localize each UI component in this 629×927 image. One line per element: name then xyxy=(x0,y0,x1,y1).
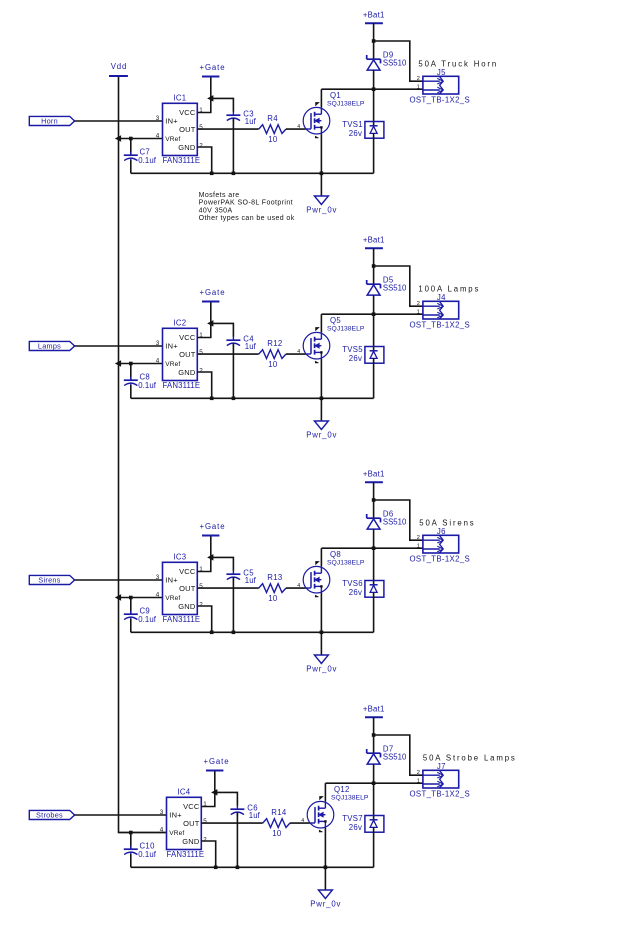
svg-text:SS510: SS510 xyxy=(383,283,407,292)
svg-text:1uf: 1uf xyxy=(245,342,257,351)
svg-text:Pwr_0v: Pwr_0v xyxy=(306,430,337,439)
svg-text:IC2: IC2 xyxy=(173,318,186,327)
svg-text:2: 2 xyxy=(199,367,203,374)
svg-text:+Bat1: +Bat1 xyxy=(363,235,385,244)
svg-text:26v: 26v xyxy=(349,354,362,363)
svg-text:IC3: IC3 xyxy=(173,552,186,561)
svg-text:OUT: OUT xyxy=(179,350,196,359)
svg-text:OST_TB-1X2_S: OST_TB-1X2_S xyxy=(410,555,471,564)
svg-text:Strobes: Strobes xyxy=(36,811,63,820)
svg-text:J5: J5 xyxy=(437,68,446,77)
svg-text:+Gate: +Gate xyxy=(204,757,230,766)
svg-text:FAN3111E: FAN3111E xyxy=(163,381,201,390)
svg-text:3: 3 xyxy=(160,809,164,816)
svg-text:0.1uf: 0.1uf xyxy=(138,850,157,859)
svg-text:GND: GND xyxy=(178,143,196,152)
svg-text:50A Truck Horn: 50A Truck Horn xyxy=(418,60,498,69)
svg-text:R12: R12 xyxy=(267,339,282,348)
svg-text:4: 4 xyxy=(297,583,300,589)
svg-text:40V 350A: 40V 350A xyxy=(199,207,233,214)
svg-text:4: 4 xyxy=(160,826,164,833)
svg-text:10: 10 xyxy=(272,829,282,838)
svg-text:+Gate: +Gate xyxy=(200,288,226,297)
svg-text:VCC: VCC xyxy=(179,567,196,576)
svg-text:3: 3 xyxy=(156,115,160,122)
svg-text:SQJ138ELP: SQJ138ELP xyxy=(327,101,365,108)
svg-text:100A Lamps: 100A Lamps xyxy=(418,285,480,294)
svg-text:PowerPAK SO-8L Footprint: PowerPAK SO-8L Footprint xyxy=(199,200,293,207)
svg-text:10: 10 xyxy=(268,594,278,603)
svg-text:0.1uf: 0.1uf xyxy=(138,156,157,165)
svg-text:IN+: IN+ xyxy=(165,342,178,351)
svg-text:GND: GND xyxy=(178,368,196,377)
svg-text:50A Strobe Lamps: 50A Strobe Lamps xyxy=(423,754,517,763)
svg-text:4: 4 xyxy=(301,818,304,824)
svg-text:OUT: OUT xyxy=(179,125,196,134)
svg-text:Pwr_0v: Pwr_0v xyxy=(306,664,337,673)
svg-text:1: 1 xyxy=(417,310,420,316)
svg-text:IN+: IN+ xyxy=(165,117,178,126)
svg-text:4: 4 xyxy=(156,591,160,598)
svg-text:Mosfets are: Mosfets are xyxy=(199,192,240,199)
svg-text:Other types can be used ok: Other types can be used ok xyxy=(199,215,295,222)
svg-text:+Gate: +Gate xyxy=(200,63,226,72)
svg-text:1: 1 xyxy=(417,85,420,91)
svg-text:4: 4 xyxy=(156,357,160,364)
svg-text:R13: R13 xyxy=(267,573,282,582)
svg-text:Q1: Q1 xyxy=(330,91,341,100)
svg-text:Q5: Q5 xyxy=(330,316,341,325)
svg-text:2: 2 xyxy=(417,76,420,82)
svg-text:Pwr_0v: Pwr_0v xyxy=(306,205,337,214)
svg-text:IC1: IC1 xyxy=(173,93,186,102)
svg-text:SQJ138ELP: SQJ138ELP xyxy=(327,560,365,567)
svg-text:2: 2 xyxy=(199,142,203,149)
svg-text:1: 1 xyxy=(417,779,420,785)
svg-text:OUT: OUT xyxy=(179,584,196,593)
svg-text:+Bat1: +Bat1 xyxy=(363,469,385,478)
svg-text:1: 1 xyxy=(417,544,420,550)
svg-text:FAN3111E: FAN3111E xyxy=(163,156,201,165)
svg-text:IN+: IN+ xyxy=(169,811,182,820)
svg-text:R4: R4 xyxy=(267,114,278,123)
svg-text:FAN3111E: FAN3111E xyxy=(163,615,201,624)
svg-text:IC4: IC4 xyxy=(177,787,190,796)
svg-text:0.1uf: 0.1uf xyxy=(138,381,157,390)
svg-text:J6: J6 xyxy=(437,527,446,536)
svg-text:FAN3111E: FAN3111E xyxy=(167,850,205,859)
svg-text:VCC: VCC xyxy=(179,108,196,117)
svg-text:SQJ138ELP: SQJ138ELP xyxy=(331,795,369,802)
svg-text:R14: R14 xyxy=(271,808,287,817)
svg-text:SS510: SS510 xyxy=(383,517,407,526)
svg-text:SS510: SS510 xyxy=(383,752,407,761)
svg-text:Lamps: Lamps xyxy=(38,342,61,351)
svg-text:26v: 26v xyxy=(349,129,362,138)
svg-text:GND: GND xyxy=(178,602,196,611)
svg-text:VCC: VCC xyxy=(179,333,196,342)
svg-text:4: 4 xyxy=(297,349,300,355)
svg-text:Vdd: Vdd xyxy=(111,62,128,71)
svg-text:SS510: SS510 xyxy=(383,58,407,67)
svg-text:2: 2 xyxy=(203,836,207,843)
svg-text:J7: J7 xyxy=(437,762,446,771)
svg-text:SQJ138ELP: SQJ138ELP xyxy=(327,326,365,333)
svg-text:OST_TB-1X2_S: OST_TB-1X2_S xyxy=(410,96,471,105)
svg-text:IN+: IN+ xyxy=(165,576,178,585)
svg-text:2: 2 xyxy=(417,535,420,541)
svg-text:4: 4 xyxy=(156,132,160,139)
svg-text:OUT: OUT xyxy=(183,819,200,828)
svg-text:26v: 26v xyxy=(349,588,362,597)
svg-text:+Bat1: +Bat1 xyxy=(363,10,385,19)
svg-text:J4: J4 xyxy=(437,293,446,302)
svg-text:10: 10 xyxy=(268,360,278,369)
svg-text:1uf: 1uf xyxy=(249,811,261,820)
svg-text:1uf: 1uf xyxy=(245,117,257,126)
svg-text:VCC: VCC xyxy=(183,802,200,811)
svg-text:50A Sirens: 50A Sirens xyxy=(419,519,475,528)
svg-text:+Gate: +Gate xyxy=(200,522,226,531)
svg-text:10: 10 xyxy=(268,135,278,144)
svg-text:Q8: Q8 xyxy=(330,550,341,559)
svg-text:Q12: Q12 xyxy=(334,785,350,794)
svg-text:0.1uf: 0.1uf xyxy=(138,615,157,624)
svg-text:4: 4 xyxy=(297,124,300,130)
svg-text:GND: GND xyxy=(182,837,200,846)
svg-text:1uf: 1uf xyxy=(245,576,257,585)
svg-text:OST_TB-1X2_S: OST_TB-1X2_S xyxy=(410,321,471,330)
svg-text:Sirens: Sirens xyxy=(38,576,60,585)
svg-text:OST_TB-1X2_S: OST_TB-1X2_S xyxy=(410,790,471,799)
svg-text:+Bat1: +Bat1 xyxy=(363,704,385,713)
svg-text:2: 2 xyxy=(417,770,420,776)
svg-text:3: 3 xyxy=(156,340,160,347)
svg-text:Horn: Horn xyxy=(41,117,58,126)
svg-text:2: 2 xyxy=(417,301,420,307)
svg-text:Pwr_0v: Pwr_0v xyxy=(310,899,341,908)
svg-text:3: 3 xyxy=(156,574,160,581)
svg-text:2: 2 xyxy=(199,601,203,608)
svg-text:26v: 26v xyxy=(349,823,362,832)
